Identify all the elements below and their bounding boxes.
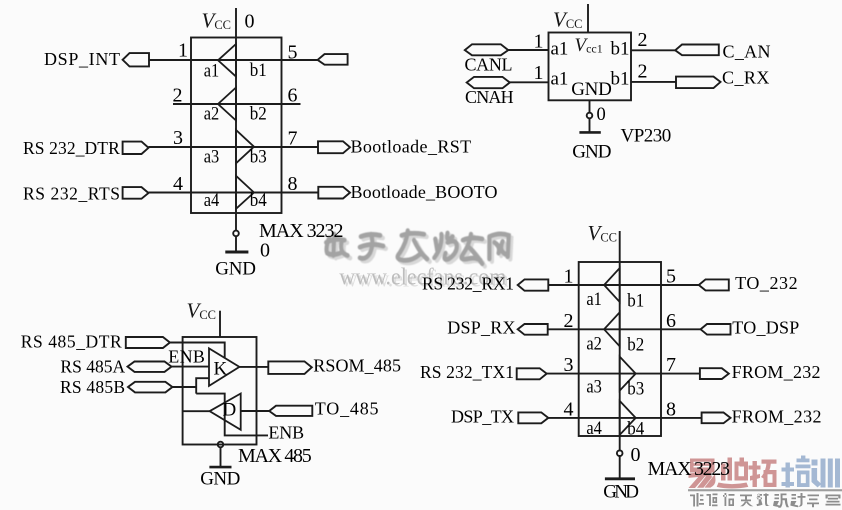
svg-text:CNAH: CNAH bbox=[465, 87, 514, 107]
svg-text:a1: a1 bbox=[204, 62, 220, 82]
watermark logo slogan bbox=[690, 493, 841, 508]
svg-text:4: 4 bbox=[173, 173, 183, 195]
buffer a4/b4 U1 bbox=[236, 176, 254, 209]
buffer a4/b4 U4 bbox=[620, 401, 636, 435]
net VCC vertical U1 bbox=[235, 8, 237, 231]
svg-text:TO_485: TO_485 bbox=[315, 399, 379, 419]
svg-text:Bootloade_BOOTO: Bootloade_BOOTO bbox=[351, 182, 498, 202]
connector DSP_TX bbox=[518, 412, 548, 423]
svg-text:RS 485_DTR: RS 485_DTR bbox=[21, 332, 122, 352]
connector DSP_RX bbox=[518, 324, 548, 335]
buffer a3/b3 U4 bbox=[620, 357, 636, 391]
watermark center elecfans bbox=[326, 231, 509, 264]
svg-text:ENB: ENB bbox=[268, 423, 304, 443]
svg-text:3: 3 bbox=[173, 127, 183, 149]
watermark logo divider bbox=[688, 489, 842, 491]
connector RSOM_485 bbox=[268, 361, 312, 374]
wire D input from TO_485 bbox=[241, 410, 270, 412]
svg-text:GND: GND bbox=[603, 482, 639, 503]
wire D output to left edge bbox=[183, 410, 210, 412]
wire U4 gnd stem lower bbox=[619, 456, 621, 479]
watermark logo char pei bbox=[782, 456, 811, 488]
wire VCC stem U2 bbox=[587, 4, 589, 33]
svg-text:8: 8 bbox=[666, 399, 676, 421]
svg-text:D: D bbox=[223, 400, 237, 421]
svg-text:0: 0 bbox=[260, 240, 270, 262]
connector RS485B bbox=[128, 382, 172, 393]
svg-text:a2: a2 bbox=[204, 105, 220, 125]
wire U1 gnd stem bbox=[235, 236, 237, 252]
buffer a2/b2 U1 bbox=[218, 88, 236, 121]
wire RS485B horizontal bbox=[172, 386, 196, 388]
svg-text:0: 0 bbox=[631, 444, 641, 466]
svg-text:1: 1 bbox=[534, 62, 544, 84]
connector RS485A bbox=[128, 362, 172, 372]
connector DSP_INT bbox=[123, 53, 149, 66]
net VCC vertical U4 bbox=[619, 231, 621, 436]
svg-text:b1: b1 bbox=[611, 69, 630, 90]
ground symbol U3 bbox=[209, 466, 231, 469]
svg-text:a1: a1 bbox=[551, 39, 569, 60]
connector TO_485 bbox=[269, 406, 312, 416]
connector FROM_232 row4 bbox=[702, 413, 731, 424]
junction node U1 gnd bbox=[233, 231, 239, 237]
wire row3 DTR to RST bbox=[149, 146, 319, 148]
svg-text:6: 6 bbox=[288, 85, 298, 107]
svg-text:ENB: ENB bbox=[168, 347, 205, 367]
svg-text:RSOM_485: RSOM_485 bbox=[313, 356, 401, 376]
wire to D enable and ENB bbox=[196, 394, 268, 436]
connector RS232_RX1 bbox=[518, 279, 549, 290]
wire VCC stem U3 bbox=[219, 311, 221, 337]
svg-text:TO_232: TO_232 bbox=[735, 273, 798, 293]
watermark logo char tuo bbox=[749, 460, 777, 488]
svg-text:b1: b1 bbox=[627, 292, 644, 312]
ground symbol U4 bbox=[605, 477, 635, 480]
wire RS485A to K input bbox=[172, 366, 210, 368]
svg-text:a4: a4 bbox=[586, 419, 602, 439]
watermark logo char yi bbox=[689, 459, 716, 489]
wire row2 DSP_RX to TO_DSP bbox=[548, 328, 701, 330]
wire U4 gnd stem upper bbox=[619, 436, 621, 450]
svg-text:GND: GND bbox=[215, 259, 256, 280]
svg-text:RS 485A: RS 485A bbox=[60, 357, 125, 377]
wire DTR to K enable bbox=[170, 343, 225, 359]
svg-text:1: 1 bbox=[178, 40, 188, 62]
svg-text:1: 1 bbox=[534, 31, 544, 53]
wire row2 stub bbox=[173, 103, 301, 105]
ground symbol U1 bbox=[225, 251, 248, 254]
svg-text:RS 485B: RS 485B bbox=[60, 377, 125, 397]
svg-text:RS 232_RTS: RS 232_RTS bbox=[23, 184, 120, 204]
svg-text:a1: a1 bbox=[551, 69, 569, 90]
svg-text:GND: GND bbox=[572, 142, 611, 163]
connector RS232_RTS bbox=[123, 187, 149, 199]
svg-text:FROM_232: FROM_232 bbox=[732, 362, 821, 382]
svg-text:b2: b2 bbox=[250, 105, 267, 125]
svg-text:Bootloade_RST: Bootloade_RST bbox=[351, 137, 472, 157]
svg-text:b3: b3 bbox=[627, 380, 644, 400]
svg-text:RS 232_RX1: RS 232_RX1 bbox=[422, 274, 514, 294]
wire U2 to C_AN bbox=[631, 49, 675, 51]
svg-text:GND: GND bbox=[571, 79, 612, 100]
ground symbol U2 bbox=[579, 131, 600, 134]
connector RS485_DTR bbox=[126, 337, 170, 348]
IC U2 VP230 box bbox=[549, 33, 632, 101]
svg-text:C_RX: C_RX bbox=[722, 68, 769, 88]
wire U2 gnd stem upper bbox=[589, 100, 591, 112]
svg-text:3: 3 bbox=[564, 354, 574, 376]
svg-text:b1: b1 bbox=[611, 39, 630, 60]
svg-text:RS 232_TX1: RS 232_TX1 bbox=[420, 362, 514, 382]
svg-text:RS 232_DTR: RS 232_DTR bbox=[23, 138, 120, 158]
junction node U4 gnd bbox=[617, 450, 623, 456]
svg-text:1: 1 bbox=[564, 266, 574, 288]
connector pin5 blank bbox=[318, 54, 348, 65]
connector C_AN bbox=[675, 45, 719, 56]
svg-text:b2: b2 bbox=[627, 336, 644, 356]
svg-text:FROM_232: FROM_232 bbox=[732, 406, 822, 426]
svg-text:5: 5 bbox=[288, 42, 298, 64]
svg-text:2: 2 bbox=[173, 85, 183, 107]
svg-text:a4: a4 bbox=[204, 191, 220, 211]
svg-text:MAX 3232: MAX 3232 bbox=[259, 220, 344, 242]
svg-text:C_AN: C_AN bbox=[723, 42, 771, 62]
svg-text:b1: b1 bbox=[250, 61, 267, 81]
connector Bootloade_BOOTO bbox=[318, 187, 350, 199]
svg-text:7: 7 bbox=[666, 354, 676, 376]
buffer a3/b3 U1 bbox=[236, 130, 254, 163]
watermark logo char xun bbox=[812, 459, 841, 488]
buffer a1/b1 U1 bbox=[218, 44, 236, 77]
watermark logo char di bbox=[717, 458, 749, 489]
wire CANL to U2 bbox=[508, 49, 548, 51]
svg-text:4: 4 bbox=[564, 399, 574, 421]
svg-text:VP230: VP230 bbox=[621, 126, 672, 147]
connector RS232_DTR bbox=[123, 142, 149, 154]
junction node U2 gnd bbox=[587, 113, 593, 119]
connector FROM_232 row3 bbox=[700, 368, 729, 379]
svg-text:0: 0 bbox=[245, 11, 255, 33]
svg-text:DSP_RX: DSP_RX bbox=[447, 318, 515, 338]
wire CNAH to U2 bbox=[510, 81, 549, 83]
connector TO_DSP bbox=[701, 324, 731, 335]
svg-text:2: 2 bbox=[564, 310, 574, 332]
svg-text:b4: b4 bbox=[627, 420, 644, 440]
wire row4 DSP_TX to FROM_232b bbox=[548, 417, 701, 419]
svg-text:DSP_TX: DSP_TX bbox=[451, 406, 514, 426]
wire U2 gnd stem lower bbox=[589, 118, 591, 132]
wire U3 gnd stem bbox=[220, 447, 222, 467]
svg-text:a3: a3 bbox=[586, 378, 602, 398]
svg-text:K: K bbox=[214, 359, 228, 380]
buffer D receiver U3 bbox=[210, 394, 241, 430]
connector TO_232 bbox=[699, 279, 729, 290]
wire K output bbox=[239, 366, 268, 368]
svg-text:0: 0 bbox=[597, 105, 606, 125]
svg-text:b4: b4 bbox=[250, 191, 267, 211]
svg-text:2: 2 bbox=[638, 29, 648, 51]
junction node U3 gnd bbox=[218, 442, 224, 448]
wire row1 DSP_INT to pin5 bbox=[149, 59, 318, 61]
svg-text:a3: a3 bbox=[204, 148, 220, 168]
svg-text:DSP_INT: DSP_INT bbox=[44, 49, 120, 69]
IC U4 MAX3223 box bbox=[579, 262, 661, 436]
svg-text:GND: GND bbox=[200, 469, 240, 490]
wire row4 RTS to BOOTO bbox=[149, 192, 319, 194]
connector Bootloade_RST bbox=[318, 141, 350, 153]
svg-text:a1: a1 bbox=[586, 290, 602, 310]
svg-text:CANL: CANL bbox=[465, 55, 513, 75]
svg-text:MAX 3223: MAX 3223 bbox=[648, 458, 731, 480]
svg-text:2: 2 bbox=[638, 61, 648, 83]
svg-text:5: 5 bbox=[666, 266, 676, 288]
svg-text:b3: b3 bbox=[250, 148, 267, 168]
connector C_RX bbox=[676, 77, 721, 89]
buffer a1/b1 U4 bbox=[604, 268, 620, 302]
connector CNAH bbox=[467, 77, 510, 88]
wire row1 RX1 to TO_232 bbox=[548, 284, 699, 286]
svg-text:TO_DSP: TO_DSP bbox=[732, 318, 799, 338]
svg-text:8: 8 bbox=[288, 173, 298, 195]
buffer a2/b2 U4 bbox=[604, 312, 620, 346]
wire B step to K input bbox=[196, 378, 209, 393]
wire U2 to C_RX bbox=[631, 81, 676, 83]
IC U3 MAX485 box bbox=[183, 337, 257, 445]
svg-text:6: 6 bbox=[666, 310, 676, 332]
connector RS232_TX1 bbox=[517, 368, 547, 379]
svg-text:a2: a2 bbox=[586, 335, 602, 355]
IC U1 MAX3232 box bbox=[191, 38, 282, 214]
connector CANL bbox=[465, 44, 508, 55]
wire row3 TX1 to FROM_232 bbox=[547, 373, 700, 375]
svg-text:7: 7 bbox=[288, 128, 298, 150]
svg-text:MAX 485: MAX 485 bbox=[238, 445, 312, 467]
buffer K driver U3 bbox=[209, 348, 239, 386]
